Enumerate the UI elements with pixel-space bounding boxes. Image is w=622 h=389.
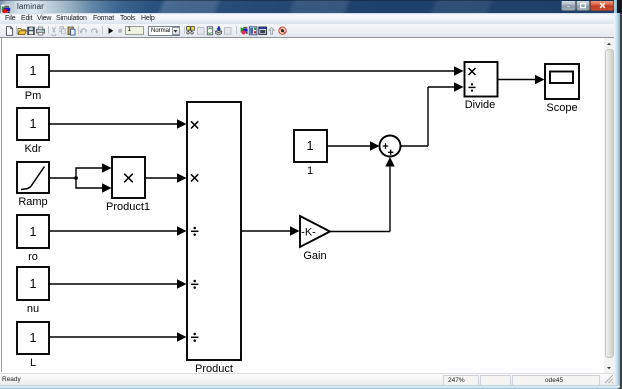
wire nu output to Product input 4: [49, 279, 187, 288]
constant block L: [17, 322, 49, 354]
connect blocks icon: [187, 27, 191, 31]
gain block Gain: [300, 216, 330, 247]
svg-text:1: 1: [30, 117, 37, 131]
library browser (simulink logo): [241, 27, 244, 33]
open: [18, 28, 26, 34]
wire constant 1 output to Sum left input: [327, 141, 380, 150]
sim time field: [125, 26, 144, 35]
stop (disabled): [118, 29, 122, 33]
up arrow disabled: [269, 27, 274, 34]
play: [109, 28, 114, 34]
debug icon: [279, 27, 286, 34]
product block Product (5 inputs): [187, 102, 241, 360]
constant block nu: [17, 267, 49, 300]
ramp source block Ramp: [17, 162, 49, 193]
new: [7, 27, 13, 36]
disabled: [225, 27, 231, 34]
disabled icon: [198, 27, 204, 34]
divide block Divide: [465, 62, 498, 97]
svg-text:Gain: Gain: [303, 250, 326, 262]
wire branch to Product1 input 2: [76, 178, 112, 193]
wire L output to Product input 5: [49, 332, 187, 341]
cut (disabled): [52, 27, 56, 35]
mode combo: [148, 26, 180, 36]
undo (disabled): [81, 29, 86, 33]
page green refresh: [207, 27, 212, 35]
wire Pm output to Divide input 1: [49, 66, 464, 75]
paste: [68, 27, 73, 35]
wire Divide output to Scope input: [498, 75, 545, 84]
product block Product1: [112, 157, 145, 198]
svg-text:Product1: Product1: [106, 201, 150, 213]
wire Product1 output to Product input 2: [145, 173, 187, 182]
junction dot on Ramp output: [74, 176, 78, 180]
wire Product output to Gain input: [241, 226, 300, 235]
redo (disabled): [92, 29, 97, 33]
constant block Pm: [17, 55, 49, 87]
copy (disabled): [60, 27, 64, 32]
svg-text:1: 1: [30, 225, 37, 239]
wire ro output to Product input 3: [49, 226, 187, 235]
svg-text:-K-: -K-: [301, 227, 316, 239]
wire Gain output to Sum bottom input: [330, 157, 395, 232]
svg-text:1: 1: [30, 331, 37, 345]
constant block 1: [294, 130, 327, 162]
print: [37, 29, 45, 33]
svg-text:Kdr: Kdr: [24, 143, 41, 155]
window icon: [259, 27, 267, 34]
svg-text:1: 1: [307, 165, 313, 177]
save: [28, 27, 34, 34]
wire branch to Product1 input 1: [76, 163, 112, 178]
wire Sum output to Divide input 2: [401, 82, 464, 146]
wire Kdr output to Product input 1: [49, 119, 187, 128]
model browser: [249, 27, 257, 35]
svg-text:1: 1: [30, 277, 37, 291]
svg-text:Scope: Scope: [546, 102, 577, 114]
constant block ro: [17, 215, 49, 248]
svg-text:Pm: Pm: [25, 90, 42, 102]
svg-text:nu: nu: [27, 303, 39, 315]
svg-text:L: L: [30, 357, 36, 369]
svg-text:1: 1: [307, 139, 314, 153]
svg-text:1: 1: [30, 64, 37, 78]
scope block Scope: [545, 64, 579, 99]
build box icon: [216, 30, 222, 33]
svg-text:ro: ro: [28, 251, 38, 263]
svg-text:Ramp: Ramp: [18, 196, 47, 208]
constant block Kdr: [17, 108, 49, 140]
svg-text:Divide: Divide: [465, 99, 496, 111]
sum block (circle with two plus ports): [380, 136, 401, 157]
wire Ramp output to branch junction: [49, 177, 76, 179]
